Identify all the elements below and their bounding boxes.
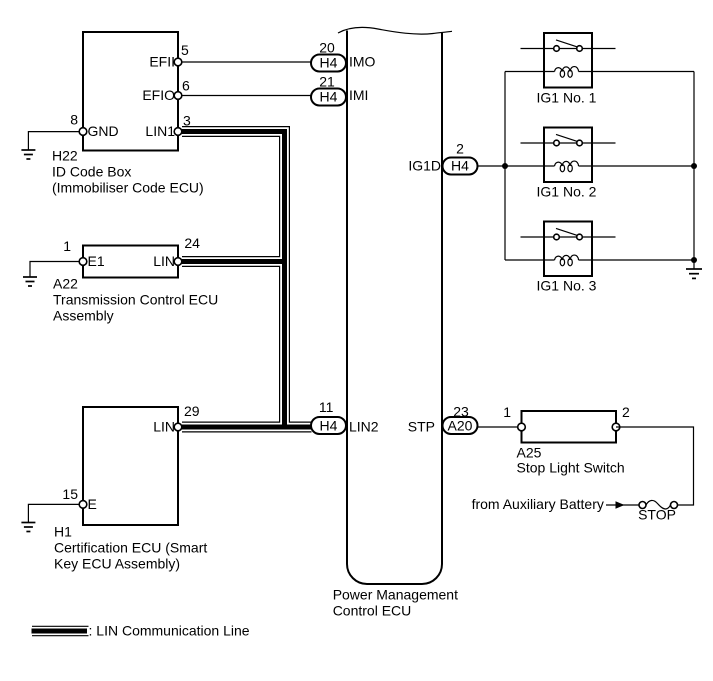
pin 6 EFIO bbox=[174, 92, 182, 100]
svg-text:Certification ECU (Smart: Certification ECU (Smart bbox=[54, 540, 207, 556]
node junction dot right bus coil3 bbox=[691, 257, 697, 263]
svg-text:15: 15 bbox=[62, 486, 78, 502]
svg-text:ID Code Box: ID Code Box bbox=[52, 164, 131, 180]
svg-text:H4: H4 bbox=[320, 55, 338, 71]
svg-text:Transmission Control ECU: Transmission Control ECU bbox=[53, 292, 218, 308]
relay IG1 No. 3 bbox=[521, 222, 616, 294]
svg-text:LIN2: LIN2 bbox=[349, 419, 379, 435]
wire EFIO to H4 bbox=[182, 95, 312, 97]
wire IG1D to relay bus bbox=[478, 165, 555, 167]
svg-text:11: 11 bbox=[319, 399, 334, 415]
svg-text:E1: E1 bbox=[88, 253, 105, 269]
wire GND of H22 bbox=[28, 132, 83, 150]
svg-text:H4: H4 bbox=[320, 89, 338, 105]
wire pin2 to fuse loop bbox=[616, 427, 694, 505]
wire left relay bus bbox=[504, 72, 506, 261]
node junction dot left bus bbox=[502, 163, 508, 169]
connector H4 pin 11 LIN2 bbox=[311, 417, 346, 434]
arrow head bbox=[616, 501, 625, 508]
svg-text:EFIO: EFIO bbox=[142, 87, 175, 103]
svg-text:STP: STP bbox=[408, 419, 435, 435]
svg-text:21: 21 bbox=[319, 73, 335, 89]
torn top wavy edge bbox=[338, 27, 452, 34]
svg-text:1: 1 bbox=[63, 238, 71, 254]
svg-text:IMO: IMO bbox=[349, 54, 376, 70]
pin 29 LIN bbox=[174, 423, 182, 431]
switch A25 Stop Light Switch bbox=[522, 411, 617, 443]
pin 8 GND bbox=[79, 128, 87, 136]
wire LIN bus core pass bbox=[182, 132, 312, 428]
ground G1 (H22) bbox=[21, 150, 35, 159]
svg-text:29: 29 bbox=[184, 403, 200, 419]
svg-text:H4: H4 bbox=[451, 158, 469, 174]
svg-text:A25: A25 bbox=[517, 445, 542, 461]
svg-text:H4: H4 bbox=[320, 418, 338, 434]
svg-text:Control ECU: Control ECU bbox=[333, 603, 412, 619]
svg-text:20: 20 bbox=[319, 40, 335, 56]
svg-text:24: 24 bbox=[184, 235, 200, 251]
svg-text:IG1 No. 1: IG1 No. 1 bbox=[537, 90, 597, 106]
fuse STOP bbox=[639, 502, 646, 509]
node junction dot right bus coil2 bbox=[691, 163, 697, 169]
connector H4 pin 20 IMO bbox=[311, 55, 346, 72]
svg-text:GND: GND bbox=[88, 123, 119, 139]
svg-text:IG1 No. 2: IG1 No. 2 bbox=[537, 184, 597, 200]
svg-text:EFII: EFII bbox=[149, 54, 175, 70]
wire LIN bus white pass bbox=[182, 132, 312, 428]
svg-text:IMI: IMI bbox=[349, 87, 368, 103]
svg-text:: LIN Communication Line: : LIN Communication Line bbox=[89, 623, 250, 639]
svg-text:H1: H1 bbox=[54, 524, 72, 540]
ground G3 (H1) bbox=[21, 523, 35, 532]
pin 15 E bbox=[79, 501, 87, 509]
connector H4 pin 21 IMI bbox=[311, 89, 346, 106]
ECU block H22 ID Code Box bbox=[83, 32, 178, 151]
svg-text:H22: H22 bbox=[52, 148, 78, 164]
svg-text:6: 6 bbox=[182, 78, 190, 94]
svg-text:1: 1 bbox=[503, 404, 511, 420]
svg-text:from Auxiliary Battery: from Auxiliary Battery bbox=[472, 496, 604, 512]
svg-text:Assembly: Assembly bbox=[53, 308, 114, 324]
svg-text:E: E bbox=[88, 496, 97, 512]
svg-text:A22: A22 bbox=[53, 276, 78, 292]
wire LIN bus outer black pass bbox=[182, 132, 312, 428]
svg-text:3: 3 bbox=[183, 113, 191, 129]
svg-text:Stop Light Switch: Stop Light Switch bbox=[517, 460, 625, 476]
svg-text:8: 8 bbox=[70, 112, 78, 128]
pin 3 LIN1 bbox=[174, 128, 182, 136]
svg-text:A20: A20 bbox=[448, 418, 473, 434]
svg-text:LIN: LIN bbox=[153, 419, 175, 435]
pin 2 of A25 bbox=[612, 423, 620, 431]
svg-text:5: 5 bbox=[181, 42, 189, 58]
ground G4 (relay bus) bbox=[686, 269, 702, 278]
svg-text:Power Management: Power Management bbox=[333, 587, 458, 603]
wire relay3 coil line bbox=[505, 259, 555, 261]
connector A20 pin 23 STP bbox=[443, 417, 478, 434]
legend LIN communication line symbol bbox=[32, 626, 89, 635]
svg-text:2: 2 bbox=[622, 404, 630, 420]
svg-text:Key ECU Assembly): Key ECU Assembly) bbox=[54, 556, 180, 572]
svg-text:2: 2 bbox=[456, 141, 464, 157]
pin 24 LIN bbox=[174, 258, 182, 266]
ground G2 (A22) bbox=[23, 277, 37, 286]
pin 1 of A25 bbox=[518, 423, 526, 431]
relay IG1 No. 1 bbox=[521, 33, 616, 106]
wire EFII to H4 bbox=[182, 61, 312, 63]
wire right relay bus bbox=[693, 72, 695, 269]
relay IG1 No. 2 bbox=[521, 128, 616, 200]
ECU block A22 Transmission Control ECU bbox=[83, 246, 178, 278]
svg-text:STOP: STOP bbox=[638, 507, 676, 523]
pin 5 EFII bbox=[174, 58, 182, 66]
wire E1 of A22 bbox=[30, 262, 83, 277]
connector H4 pin 2 IG1D bbox=[443, 158, 478, 175]
ECU block Power Management Control ECU outline bbox=[347, 31, 442, 585]
svg-text:LIN: LIN bbox=[153, 253, 175, 269]
svg-text:IG1D: IG1D bbox=[408, 158, 441, 174]
svg-text:IG1 No. 3: IG1 No. 3 bbox=[537, 278, 597, 294]
svg-text:(Immobiliser Code ECU): (Immobiliser Code ECU) bbox=[52, 180, 204, 196]
svg-text:23: 23 bbox=[453, 404, 469, 420]
pin 1 E1 bbox=[79, 258, 87, 266]
svg-text:LIN1: LIN1 bbox=[145, 123, 175, 139]
wire relay1 coil line bbox=[505, 71, 555, 73]
wire E of H1 bbox=[28, 504, 83, 522]
ECU block H1 Certification ECU bbox=[83, 407, 178, 525]
wire STP to stop light switch bbox=[478, 426, 522, 428]
